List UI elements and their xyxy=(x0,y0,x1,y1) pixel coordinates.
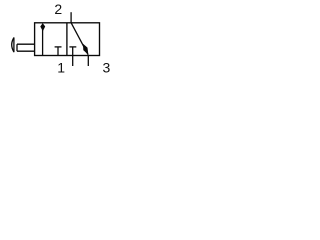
blocked port T (left square) stub xyxy=(57,47,59,56)
flow path arrow 1->2 (left square) wire xyxy=(42,26,44,56)
port 1 stub wire xyxy=(72,56,74,67)
svg-text:3: 3 xyxy=(103,60,111,76)
valve V1 body (two-position 3/2 valve outline) xyxy=(35,23,100,56)
port 2 stub wire xyxy=(70,12,72,22)
blocked port T (left square) bar xyxy=(55,46,62,48)
arrowhead up (left square) xyxy=(40,23,45,31)
pushbutton rod bottom line xyxy=(17,50,35,52)
port 3 stub wire xyxy=(87,56,89,67)
svg-text:1: 1 xyxy=(57,60,65,76)
pushbutton cap arc xyxy=(12,38,14,52)
svg-text:2: 2 xyxy=(54,1,62,17)
pushbutton rod end cap xyxy=(16,44,18,51)
blocked port T (right square) bar xyxy=(69,46,76,48)
blocked port T (right square) stub xyxy=(72,47,74,56)
pushbutton rod top line xyxy=(17,43,35,45)
pushbutton face line xyxy=(13,37,15,52)
flow path arrow 2->3 (right square) wire xyxy=(71,23,88,55)
arrowhead down-right (right square) xyxy=(83,44,88,55)
valve position divider xyxy=(66,23,68,56)
